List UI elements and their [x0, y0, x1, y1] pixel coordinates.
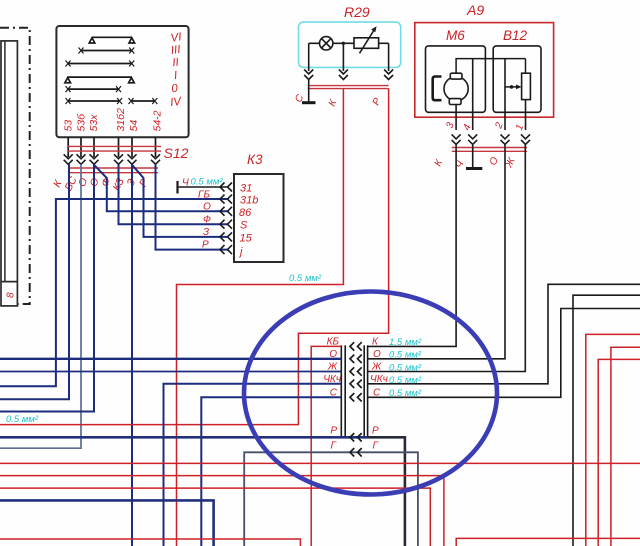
svg-text:54-2: 54-2 — [151, 110, 163, 131]
connector X1 pin cell divider — [1, 281, 17, 283]
wire red bottom left — [0, 539, 300, 546]
pin stub 31б2 — [118, 137, 120, 157]
wire О row left — [0, 358, 341, 360]
wire Ж row left — [0, 371, 341, 373]
wire КБ red left — [311, 346, 341, 546]
wire ЧКч right to edge — [368, 284, 640, 384]
wire Ч to K3 pin 31 — [178, 186, 229, 188]
wire Р right black overlay — [368, 437, 405, 546]
connector row arrows — [350, 342, 362, 456]
arrows under R29 — [304, 70, 393, 80]
motor brush top — [450, 73, 462, 79]
pin stub 54 — [131, 137, 133, 157]
labels C K P — [293, 92, 383, 108]
S12 contact I — [65, 77, 134, 83]
svg-text:М6: М6 — [446, 28, 465, 43]
svg-text:31b: 31b — [240, 195, 258, 207]
svg-text:53б: 53б — [75, 113, 87, 132]
lamp wires — [309, 42, 354, 44]
dash-dot boundary box — [0, 28, 30, 304]
wire K red path to lower left — [177, 89, 344, 546]
pin 2 wire — [504, 59, 506, 130]
pin stub 53 — [67, 137, 69, 157]
pin stub 54-2 — [155, 137, 157, 157]
harness pair under R29 — [308, 86, 389, 89]
svg-text:Ч: Ч — [182, 178, 189, 189]
wire navy thick lower — [0, 500, 214, 546]
motor armature — [444, 77, 468, 101]
wire О down to connector row — [368, 144, 505, 358]
pin 1 wire — [525, 100, 527, 130]
wire К down to connector row — [368, 144, 457, 346]
svg-text:О: О — [329, 349, 337, 360]
highlight ellipse — [244, 292, 497, 495]
labels К Ч О Ж — [433, 155, 518, 170]
rheostat unit R29 box — [299, 22, 401, 67]
svg-text:54: 54 — [128, 120, 140, 132]
pin numbers — [444, 121, 526, 132]
svg-text:Р: Р — [202, 240, 209, 251]
wire red mid vertical — [0, 474, 1, 476]
unit A9 box — [415, 23, 554, 118]
wire red bottom right — [456, 538, 640, 546]
wire P red path — [0, 89, 389, 425]
wire Р row — [0, 437, 405, 546]
svg-text:31б2: 31б2 — [115, 108, 127, 132]
harness lines lower pair — [68, 168, 158, 173]
svg-text:К3: К3 — [247, 152, 263, 167]
relay K3 body — [234, 174, 284, 262]
M6 internal top wire — [456, 59, 525, 74]
S12 contact III — [79, 48, 135, 54]
wire colour labels — [51, 174, 151, 192]
svg-text:0.5 мм²: 0.5 мм² — [289, 273, 322, 284]
K3 wire labels — [182, 178, 211, 251]
wire О2 branch with jog — [94, 165, 228, 212]
wire Ж down to connector row — [368, 144, 526, 371]
cross-section labels — [389, 337, 422, 399]
svg-text:8: 8 — [6, 292, 17, 298]
svg-text:ГБ: ГБ — [198, 190, 210, 201]
svg-text:Ж: Ж — [371, 362, 382, 373]
wire Р from pin 54-2 — [156, 164, 229, 249]
K3 pin names — [238, 183, 258, 259]
resistor right lead — [379, 42, 389, 44]
svg-text:31: 31 — [240, 183, 252, 195]
wire ЧКч row left — [164, 384, 342, 546]
connector bar left outer — [340, 345, 342, 437]
svg-text:53х: 53х — [88, 114, 100, 132]
svg-text:S: S — [240, 220, 248, 232]
svg-text:0.5 мм²: 0.5 мм² — [6, 414, 39, 425]
motor M6 box — [426, 46, 486, 112]
wire red to corner down — [0, 476, 444, 546]
connector bar left inner — [344, 345, 346, 437]
harness pair under A9 — [452, 148, 527, 152]
switch S12 body — [56, 26, 188, 137]
B12 wiper arrow — [505, 85, 522, 90]
pin stub 53х — [93, 137, 95, 157]
svg-text:О: О — [373, 349, 381, 360]
svg-text:15: 15 — [240, 233, 253, 245]
S12 contact VI — [89, 37, 134, 43]
ground bar C — [302, 101, 316, 104]
connector arrows under S12 — [64, 154, 160, 164]
pin stub 53б — [80, 137, 82, 157]
svg-text:О: О — [203, 202, 211, 213]
svg-text:53: 53 — [63, 120, 75, 132]
wire red edge 2 — [611, 347, 640, 546]
wire БС from pin 53б — [0, 164, 81, 448]
svg-text:Ф: Ф — [203, 215, 211, 226]
svg-text:КБ: КБ — [327, 337, 340, 348]
wire КЗ from pin 54 — [131, 164, 133, 546]
wire С row left — [201, 397, 341, 546]
wire О1 from pin 53х — [0, 164, 94, 411]
ground stub 4 — [472, 144, 474, 167]
wire З branch with jog — [132, 165, 228, 237]
connector X1 inner contact line — [4, 41, 6, 282]
pin 3 wire — [455, 105, 457, 131]
variable resistor — [354, 38, 379, 49]
wire ГБ to K3 — [0, 199, 228, 386]
wire Ф from pin 31б2 — [119, 164, 229, 224]
wire К from pin 53 — [0, 164, 69, 399]
K3 row arrows — [220, 183, 232, 255]
wire red edge 1 — [586, 334, 640, 546]
junction dot — [342, 42, 345, 45]
svg-text:ЧКч: ЧКч — [323, 374, 341, 385]
wire black edge to bottom — [573, 295, 640, 546]
wire red to corner down 2 — [0, 488, 430, 546]
B12 resistor element — [522, 73, 531, 99]
resistor arrow — [360, 29, 375, 53]
wire P down — [388, 43, 390, 71]
position numerals — [169, 31, 183, 109]
row labels left — [323, 337, 341, 452]
connector bar right inner — [363, 345, 365, 437]
row labels right — [370, 337, 388, 452]
ground bar 4 — [466, 167, 482, 170]
svg-text:86: 86 — [239, 207, 252, 219]
ground stub C — [308, 80, 310, 103]
motor stator yoke — [433, 77, 442, 101]
S12 contact 0 — [66, 86, 122, 92]
lamp — [320, 37, 333, 50]
S12 contact IV — [66, 98, 158, 104]
pin labels — [63, 108, 164, 132]
svg-text:R29: R29 — [344, 4, 370, 20]
S12 contact II — [66, 61, 135, 67]
svg-text:А9: А9 — [466, 2, 484, 18]
wire C down — [308, 43, 310, 71]
svg-text:В12: В12 — [503, 28, 528, 43]
svg-text:Р: Р — [372, 426, 379, 437]
connector X1 body — [1, 41, 17, 306]
svg-text:С: С — [330, 388, 338, 399]
svg-text:0.5 мм²: 0.5 мм² — [389, 362, 422, 373]
svg-text:Р: Р — [330, 426, 337, 437]
wire red edge 3 — [598, 359, 640, 546]
svg-text:S12: S12 — [164, 145, 189, 161]
B12 resistor top lead — [525, 59, 527, 74]
wire Ч terminal tick — [176, 181, 178, 194]
svg-text:0.5 мм²: 0.5 мм² — [389, 350, 422, 361]
resistor B12 box — [493, 46, 541, 112]
pin 4 wire — [472, 59, 474, 130]
arrows under A9 — [452, 134, 530, 144]
wire red full width — [0, 462, 640, 464]
connector bar right outer — [367, 345, 369, 437]
wire С right to edge — [368, 309, 640, 398]
svg-text:З: З — [203, 227, 209, 238]
svg-text:Ж: Ж — [327, 362, 338, 373]
wire K down — [342, 43, 344, 71]
wire Г row — [244, 452, 418, 546]
svg-text:0.5 мм²: 0.5 мм² — [191, 177, 224, 188]
harness lines upper pair — [68, 146, 161, 151]
motor brush bottom — [449, 99, 461, 105]
svg-text:1.5 мм²: 1.5 мм² — [389, 337, 422, 348]
